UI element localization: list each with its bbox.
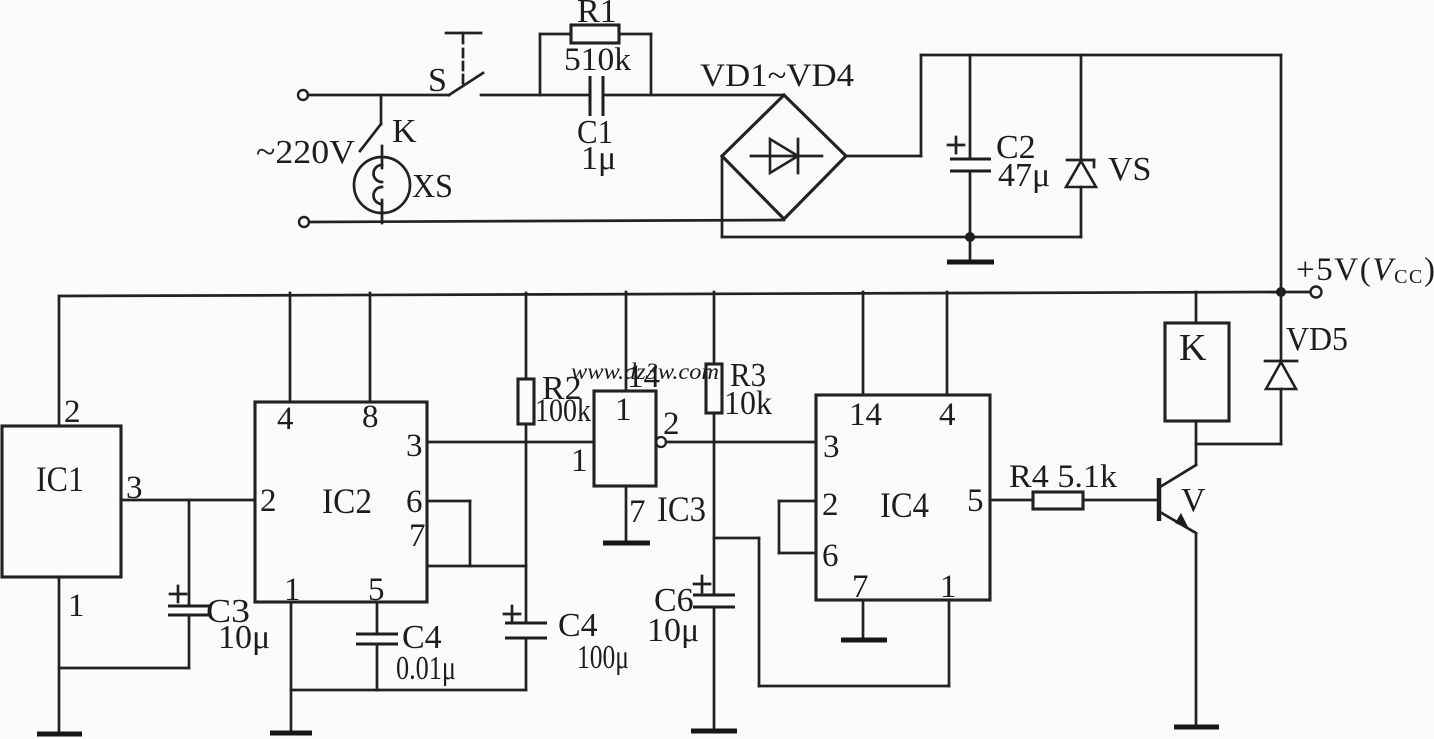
ground IC3: [603, 541, 650, 546]
svg-text:6: 6: [822, 538, 839, 574]
wire to terminal: [1286, 291, 1310, 294]
wire emitter down: [1195, 534, 1198, 726]
svg-text:6: 6: [406, 484, 423, 520]
svg-text:1: 1: [284, 572, 301, 608]
bridge rectifier VD1-VD4: [722, 95, 846, 219]
svg-text:100k: 100k: [535, 393, 591, 429]
svg-text:14: 14: [849, 397, 882, 433]
capacitor C4 0.01u: [356, 634, 398, 690]
wire IC1 pin3 to IC2 pin2: [121, 499, 255, 502]
inverter bubble: [656, 437, 666, 447]
svg-text:510k: 510k: [564, 42, 632, 78]
wire C3 branch: [59, 667, 189, 670]
svg-text:IC1: IC1: [36, 459, 84, 499]
resistor R3: [706, 292, 722, 595]
wire top DC rail: [921, 54, 1281, 57]
svg-text:8: 8: [362, 399, 379, 435]
wire bridge - leg: [721, 156, 724, 237]
svg-text:2: 2: [64, 394, 81, 430]
svg-text:1: 1: [940, 569, 957, 605]
svg-text:XS: XS: [412, 168, 453, 205]
ground emitter: [1174, 725, 1219, 730]
svg-text:7: 7: [629, 494, 646, 530]
diode VD5: [1265, 292, 1297, 444]
transistor V: [1159, 465, 1196, 533]
svg-text:0.01μ: 0.01μ: [396, 650, 456, 687]
svg-text:10μ: 10μ: [647, 612, 699, 649]
node branch to K: [380, 95, 383, 124]
wire IC3 out to IC4 pin3: [666, 441, 816, 444]
switch S: [446, 33, 483, 95]
IC2 box: [255, 402, 427, 602]
svg-text:3: 3: [126, 470, 143, 506]
svg-text:3: 3: [823, 429, 840, 465]
wire: [308, 94, 449, 97]
wire: [603, 94, 784, 97]
resistor R4: [1033, 492, 1083, 509]
wire branch to IC4 pin1: [714, 538, 949, 686]
wire up to top rail: [920, 55, 923, 156]
terminal +5V: [1311, 287, 1322, 298]
svg-text:4: 4: [277, 401, 294, 437]
wire +5V rail: [59, 292, 1281, 296]
wire K to rail: [1195, 292, 1198, 323]
wire IC1 pin2: [58, 296, 61, 426]
svg-text:10μ: 10μ: [218, 619, 270, 656]
svg-text:IC2: IC2: [322, 481, 372, 521]
zener diode VS: [1066, 55, 1096, 237]
node +5V junction: [1276, 287, 1286, 297]
terminal input bottom: [299, 217, 309, 227]
wire bottom AC: [309, 220, 784, 222]
svg-text:K: K: [1179, 327, 1207, 369]
svg-text:IC4: IC4: [880, 485, 929, 525]
svg-text:VD1~VD4: VD1~VD4: [700, 58, 854, 94]
svg-text:5: 5: [967, 483, 984, 519]
resistor R1: [540, 25, 651, 95]
wire: [481, 94, 590, 97]
wire IC3 pin7: [625, 486, 628, 542]
wire IC2 pin1 down: [290, 602, 293, 732]
svg-text:1: 1: [615, 392, 632, 428]
IC4 box: [816, 395, 990, 600]
wire IC4 pin7: [862, 600, 865, 639]
relay coil K: [1165, 323, 1229, 421]
wire ground rail: [722, 236, 1081, 239]
svg-text:V: V: [1181, 482, 1206, 519]
svg-text:100μ: 100μ: [577, 639, 629, 676]
ground IC1: [37, 732, 82, 737]
wire bridge + output: [846, 155, 921, 158]
svg-text:VS: VS: [1108, 151, 1151, 188]
ground under C2: [947, 237, 994, 262]
svg-text:1μ: 1μ: [581, 140, 616, 177]
wire IC2 pin7: [427, 565, 526, 568]
socket XS: [354, 146, 410, 223]
wire IC4 pin1: [948, 600, 951, 686]
capacitor C6: [693, 576, 735, 730]
wire IC1 pin1 down: [58, 577, 61, 733]
svg-text:R4 5.1k: R4 5.1k: [1009, 459, 1118, 495]
IC1 box: [2, 426, 121, 577]
IC3 inverter box: [594, 292, 656, 486]
capacitor C4 100u: [504, 606, 547, 690]
wire IC2 pin5: [376, 602, 379, 634]
svg-text:~220V: ~220V: [256, 134, 355, 171]
svg-text:7: 7: [409, 518, 426, 554]
wire IC4 pin5 out: [990, 499, 1033, 502]
wire IC4 pin14: [862, 292, 865, 395]
wire IC2 pin6 loop: [427, 501, 470, 566]
svg-text:VD5: VD5: [1286, 321, 1348, 358]
svg-text:2: 2: [822, 487, 839, 523]
svg-text:S: S: [428, 62, 447, 99]
capacitor C3: [168, 500, 210, 668]
capacitor C1: [590, 76, 603, 116]
wire IC2 pin8: [369, 293, 372, 402]
svg-text:5: 5: [368, 572, 385, 608]
svg-text:K: K: [392, 113, 417, 150]
wire collector to VD5: [1196, 443, 1281, 446]
ground IC2: [270, 731, 312, 736]
wire IC2 pin3 out: [427, 441, 594, 444]
capacitor C2: [948, 55, 991, 237]
svg-text:1: 1: [68, 588, 85, 624]
wire pin1 bottom rail: [291, 689, 526, 692]
svg-text:47μ: 47μ: [998, 157, 1050, 194]
svg-text:R1: R1: [577, 0, 617, 30]
svg-text:7: 7: [852, 569, 869, 605]
svg-text:2: 2: [663, 406, 680, 442]
node junction dot: [965, 232, 975, 242]
svg-text:14: 14: [627, 359, 660, 395]
wire to base: [1083, 499, 1157, 502]
svg-text:4: 4: [939, 397, 956, 433]
terminal input top: [298, 90, 308, 100]
ground IC4: [841, 638, 887, 643]
wire rail corner down: [1280, 55, 1283, 292]
wire IC4 pin2 loop: [779, 501, 816, 553]
switch K blade: [360, 124, 381, 151]
wire collector up: [1195, 421, 1198, 465]
svg-text:3: 3: [406, 428, 423, 464]
ground C6: [691, 729, 737, 734]
svg-text:1: 1: [571, 443, 588, 479]
wire IC2 pin4: [289, 293, 292, 402]
svg-text:IC3: IC3: [657, 489, 706, 529]
wire IC4 pin4: [946, 292, 949, 395]
resistor R2: [518, 293, 534, 623]
svg-text:10k: 10k: [724, 385, 772, 422]
svg-text:2: 2: [260, 483, 277, 519]
